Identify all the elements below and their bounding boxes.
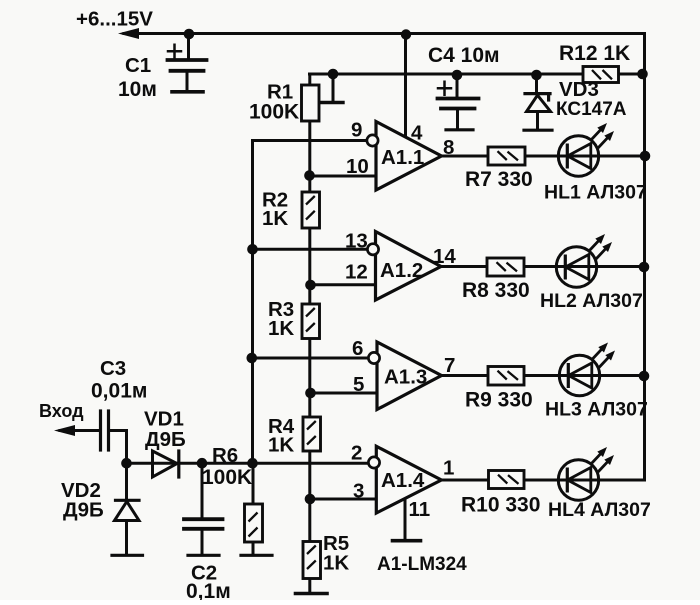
svg-text:HL1 АЛ307: HL1 АЛ307 (544, 182, 647, 204)
svg-text:HL4 АЛ307: HL4 АЛ307 (548, 499, 651, 521)
svg-text:С1: С1 (125, 54, 151, 77)
svg-text:100K: 100K (202, 466, 252, 489)
svg-text:2: 2 (351, 442, 362, 465)
svg-text:10: 10 (346, 155, 369, 178)
svg-text:1K: 1K (262, 207, 288, 230)
svg-text:R7 330: R7 330 (465, 168, 533, 191)
svg-text:0,1м: 0,1м (186, 580, 231, 600)
svg-text:7: 7 (444, 354, 455, 377)
svg-text:A1.3: A1.3 (384, 366, 427, 389)
svg-text:HL3 АЛ307: HL3 АЛ307 (545, 399, 648, 421)
svg-text:Вход: Вход (39, 401, 84, 421)
svg-text:Д9Б: Д9Б (145, 428, 186, 451)
svg-text:5: 5 (353, 373, 364, 396)
svg-text:12: 12 (345, 261, 368, 284)
svg-text:С3: С3 (100, 357, 126, 380)
svg-text:4: 4 (411, 122, 423, 145)
svg-text:A1-LM324: A1-LM324 (377, 554, 467, 575)
svg-text:8: 8 (443, 136, 454, 159)
svg-text:13: 13 (345, 230, 368, 253)
svg-text:A1.1: A1.1 (381, 146, 424, 169)
svg-text:R8 330: R8 330 (462, 279, 530, 302)
svg-text:9: 9 (351, 119, 362, 142)
svg-text:R9 330: R9 330 (465, 389, 533, 412)
svg-text:0,01м: 0,01м (91, 380, 147, 403)
svg-text:A1.4: A1.4 (381, 469, 425, 492)
svg-text:14: 14 (433, 245, 456, 268)
svg-text:С4 10м: С4 10м (428, 44, 500, 67)
svg-text:100K: 100K (249, 101, 299, 124)
svg-text:R12 1K: R12 1K (559, 42, 630, 65)
svg-text:+6...15V: +6...15V (76, 8, 153, 31)
svg-text:R10 330: R10 330 (461, 494, 540, 517)
svg-text:1K: 1K (323, 552, 349, 575)
svg-text:VD3: VD3 (559, 78, 599, 101)
svg-text:HL2 АЛ307: HL2 АЛ307 (540, 290, 643, 312)
svg-text:1K: 1K (268, 434, 294, 457)
svg-text:R6: R6 (212, 444, 238, 467)
svg-text:10м: 10м (118, 78, 157, 101)
svg-text:1K: 1K (268, 317, 294, 340)
svg-text:6: 6 (352, 337, 363, 360)
svg-text:КС147А: КС147А (556, 99, 627, 120)
svg-text:1: 1 (443, 457, 454, 480)
svg-text:11: 11 (409, 498, 431, 521)
svg-text:3: 3 (353, 480, 364, 503)
svg-text:Д9Б: Д9Б (63, 499, 104, 522)
svg-text:A1.2: A1.2 (380, 259, 423, 282)
